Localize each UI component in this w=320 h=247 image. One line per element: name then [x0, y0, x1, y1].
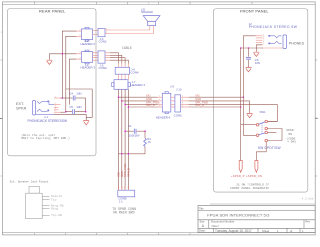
capacitor C1	[125, 124, 145, 138]
wire sleeve down to terminal	[240, 48, 242, 161]
svg-text:1: 1	[80, 52, 81, 54]
phone jack J2 PHONES	[249, 22, 298, 49]
mating pins HEADER 6 to CON5	[171, 97, 175, 107]
svg-text:1: 1	[182, 96, 183, 98]
junction SPK_B front	[240, 106, 242, 108]
wire jack pin5 to C5	[61, 111, 66, 114]
label SPKR ON	[286, 129, 293, 136]
svg-text:CON5: CON5	[174, 113, 182, 117]
wire CON3 pin1 to CON4	[110, 53, 119, 64]
junction sleeve corner	[240, 47, 242, 49]
svg-text:ON MAIN BRD: ON MAIN BRD	[113, 210, 135, 214]
connector J-9 HEADER 6	[156, 84, 175, 119]
svg-text:Document Number: Document Number	[211, 220, 235, 224]
wire switch pole A branch	[241, 124, 257, 126]
wire net SPK_FWD vertical	[124, 89, 126, 190]
svg-text:J-1: J-1	[44, 115, 48, 119]
jack pinout drawing	[26, 187, 64, 219]
svg-text:100/16V: 100/16V	[129, 134, 140, 138]
svg-text:4: 4	[159, 105, 160, 107]
rear panel box title	[39, 9, 66, 14]
capacitor C4	[62, 91, 85, 100]
line above title block	[210, 203, 315, 205]
svg-text:SPKR: SPKR	[16, 106, 27, 110]
wire throw B	[267, 121, 277, 123]
wire net SPK_B to front panel	[189, 106, 241, 108]
svg-text:Sheet: Sheet	[262, 229, 270, 233]
svg-text:3: 3	[159, 103, 160, 105]
svg-text:5: 5	[263, 43, 264, 45]
capacitor C5	[66, 105, 86, 114]
note CON6	[112, 207, 136, 214]
wire SPK_B to HEADER 6	[128, 106, 157, 108]
svg-text:ON: ON	[288, 133, 292, 136]
connector J-1 CON6	[118, 190, 135, 203]
svg-text:FPGA SDR INTERCONNECT 5/3: FPGA SDR INTERCONNECT 5/3	[207, 212, 270, 217]
svg-text:Tuesday, August 15, 2017: Tuesday, August 15, 2017	[215, 229, 252, 233]
svg-text:FRONT PANEL: FRONT PANEL	[240, 8, 269, 13]
svg-text:10N: 10N	[76, 91, 81, 95]
connector J-10 CON5	[174, 87, 182, 117]
svg-text:SPEAKER: SPEAKER	[141, 11, 153, 14]
svg-text:Size: Size	[200, 221, 205, 224]
svg-text:SW1: SW1	[260, 110, 267, 114]
svg-text:4: 4	[263, 41, 264, 43]
pin 1 of J-3	[76, 52, 81, 54]
wire net SIG vertical	[118, 89, 120, 190]
wire speaker to CON2 pin2	[110, 26, 154, 34]
svg-text:J-9: J-9	[170, 84, 174, 88]
front panel note	[230, 183, 269, 190]
title block	[198, 206, 315, 233]
svg-text:5: 5	[55, 111, 56, 113]
junction at header wires	[62, 53, 64, 55]
connector J-3 HEADER 3	[81, 50, 96, 69]
svg-text:J-10: J-10	[176, 87, 182, 91]
ground at switch	[0, 0, 1, 1]
corner annotation	[302, 197, 314, 200]
svg-text:2: 2	[55, 103, 56, 105]
svg-text:4: 4	[55, 108, 56, 110]
wire net SPK_FWD to front panel	[189, 104, 278, 121]
note text rear panel	[21, 133, 70, 140]
wire net SIG to front panel	[189, 96, 244, 98]
top pins of CON4	[119, 64, 129, 68]
label PHONES	[289, 42, 305, 46]
junction SIG	[118, 96, 120, 98]
svg-text:REAR PANEL: REAR PANEL	[39, 9, 66, 14]
front panel box title	[240, 8, 269, 13]
svg-text:1: 1	[106, 28, 107, 30]
wire CON3 pin3 to CON4	[110, 58, 125, 64]
mating pins J-2 to CON2	[93, 31, 98, 35]
mating pins J-3 to CON3	[93, 53, 98, 60]
svg-text:Title: Title	[199, 207, 204, 210]
connector J-6 CON4	[115, 67, 139, 74]
svg-text:CON2: CON2	[99, 39, 107, 43]
svg-text:EXT.: EXT.	[16, 102, 24, 106]
svg-text:2: 2	[80, 58, 81, 60]
svg-text:CON4: CON4	[131, 71, 139, 75]
junction C1 right	[144, 130, 146, 132]
vertical net labels	[117, 163, 131, 177]
svg-text:2: 2	[182, 99, 183, 101]
connector J-7 HEADER 4	[112, 80, 146, 90]
svg-text:of: of	[290, 229, 293, 233]
pin 1 of CON2	[105, 28, 110, 30]
wire net SPK_B vertical	[127, 89, 129, 190]
wire SIG to HEADER 6	[119, 96, 158, 98]
junction bus bottom 2	[128, 153, 130, 155]
cable label	[122, 46, 132, 50]
wire speaker to CON2 pin1	[110, 26, 150, 30]
wire J-2 pin1 down to jack	[62, 31, 76, 98]
svg-text:C5: C5	[69, 105, 73, 109]
wire SPK_FWD to HEADER 6	[125, 103, 158, 105]
svg-text:3: 3	[263, 39, 264, 41]
svg-text:SPK_B: SPK_B	[126, 168, 130, 177]
svg-text:1: 1	[159, 96, 160, 98]
net labels left of HEADER 6	[146, 93, 159, 107]
wire J-3 pin2 down to jack	[69, 59, 76, 105]
pins of J-1	[54, 96, 61, 112]
junction jack tip	[62, 97, 64, 99]
rear panel enclosure box	[8, 9, 97, 156]
wire GND to HEADER 6	[122, 100, 158, 102]
mating pins CON4 to HEADER 4	[119, 74, 129, 80]
pin 2 of J-3	[76, 58, 81, 60]
svg-text:HEADER 6: HEADER 6	[156, 116, 171, 120]
svg-text:HEADER 4: HEADER 4	[131, 83, 146, 87]
ground GND net	[247, 114, 253, 118]
wire net GND to front panel	[189, 101, 250, 114]
junction C1 left	[124, 130, 126, 132]
svg-text:4: 4	[182, 105, 183, 107]
label SW1	[260, 110, 267, 114]
junction SPK_B	[128, 106, 130, 108]
svg-text:HEADER 3: HEADER 3	[81, 65, 96, 69]
ground front jack	[253, 52, 259, 56]
svg-text:1K: 1K	[147, 140, 151, 144]
wire CON3 pin2 to CON4	[110, 55, 122, 63]
pin numbers CON6	[118, 187, 130, 189]
svg-text:2: 2	[80, 35, 81, 37]
pin stubs CON6	[119, 186, 129, 190]
svg-text:2: 2	[159, 99, 160, 101]
svg-text:+SPKR_P: +SPKR_P	[231, 174, 245, 178]
svg-text:<Doc>: <Doc>	[211, 224, 220, 228]
ext speaker jack pinout title	[10, 179, 49, 183]
wire jack tip to C4	[61, 97, 63, 99]
junction C5 left	[65, 111, 67, 113]
junction GND	[121, 100, 123, 102]
svg-text:PHONEJACK STEREO SW: PHONEJACK STEREO SW	[249, 25, 298, 29]
connector J-5 CON3	[98, 51, 107, 70]
label CODE ON	[286, 137, 296, 144]
svg-text:SW DPDT/SW: SW DPDT/SW	[258, 146, 282, 150]
wire throw E stub	[267, 132, 276, 134]
terminal SPKR_P	[239, 161, 242, 173]
wire J2 sleeve	[241, 47, 263, 49]
svg-text:PHONES: PHONES	[289, 42, 305, 46]
svg-text:+SPKR_ON: +SPKR_ON	[246, 174, 262, 178]
svg-text:C1: C1	[128, 124, 132, 128]
wire shield branch	[66, 89, 92, 117]
net labels right of CON5	[195, 93, 208, 107]
svg-text:10N: 10N	[255, 61, 260, 65]
svg-text:CABLE: CABLE	[122, 46, 132, 50]
junction SPK_FWD	[124, 104, 126, 106]
svg-text:3: 3	[55, 106, 56, 108]
terminal SPKR_ON	[255, 161, 258, 173]
wire R1 bottom to bus	[119, 146, 146, 153]
pin 1 of J-2	[76, 30, 81, 32]
label EXT SPKR	[16, 102, 27, 110]
connector J-4 CON2	[98, 29, 107, 44]
pins of J2	[256, 34, 264, 45]
svg-text:SPKR: SPKR	[286, 129, 293, 132]
svg-text:CON3: CON3	[99, 66, 107, 70]
terminal labels	[231, 174, 262, 178]
right pins of CON5	[181, 96, 189, 108]
svg-text:Date:: Date:	[199, 229, 206, 233]
capacitor C6	[246, 48, 260, 67]
junction bus bottom 1	[121, 153, 123, 155]
wire C4 to C5 vertical	[85, 98, 87, 112]
switch SW1 DPDT	[256, 120, 267, 142]
junction SIG front	[243, 96, 245, 98]
pin 2 of J-2	[76, 35, 81, 37]
svg-text:HEADER 2: HEADER 2	[81, 42, 96, 46]
svg-text:2: 2	[106, 32, 107, 34]
wire J2 pin5 to ground	[256, 45, 262, 52]
wire J-2 pin2 down to C5	[66, 36, 77, 111]
svg-text:C4: C4	[69, 91, 73, 95]
left pins of HEADER 6	[158, 96, 163, 108]
svg-text:4.5.08a: 4.5.08a	[302, 197, 314, 200]
svg-text:FRONT PANEL SCHEMATIC: FRONT PANEL SCHEMATIC	[230, 186, 269, 190]
svg-text:PHONEJACK STEREO/SW: PHONEJACK STEREO/SW	[28, 119, 68, 123]
speaker LS1	[141, 8, 160, 25]
svg-text:1: 1	[80, 30, 81, 32]
svg-text:10N: 10N	[76, 105, 81, 109]
pins of CON3 right side	[105, 53, 110, 60]
ground rear panel 1	[46, 60, 52, 64]
svg-text:Rev: Rev	[306, 221, 311, 224]
svg-text:J-1: J-1	[119, 199, 123, 203]
front panel enclosure box	[213, 9, 307, 192]
ground below C6	[246, 68, 252, 72]
connector J-2 HEADER 2	[81, 27, 96, 46]
wire J2 tip to switch	[243, 36, 256, 136]
svg-text:3: 3	[182, 103, 183, 105]
resistor R1	[144, 131, 152, 146]
svg-text:1: 1	[263, 34, 264, 36]
wire throw C crossover to F	[267, 129, 282, 141]
ground rear panel 2	[83, 121, 89, 125]
wire J-3 pin1 to ground	[49, 54, 76, 60]
junction C5 right	[85, 111, 87, 113]
wire net GND vertical	[121, 89, 123, 190]
svg-text:2: 2	[263, 36, 264, 38]
junction sleeve C6	[248, 47, 250, 49]
label SW DPDT/SW	[258, 146, 282, 150]
pin 2 of CON2	[105, 32, 110, 34]
wire CON3 pin4 to CON4	[110, 60, 129, 63]
wire terminal 2 to F	[256, 142, 266, 161]
phone jack J-1	[28, 101, 68, 123]
wire jack sleeve to ground	[54, 114, 86, 120]
svg-text:1: 1	[55, 96, 56, 98]
